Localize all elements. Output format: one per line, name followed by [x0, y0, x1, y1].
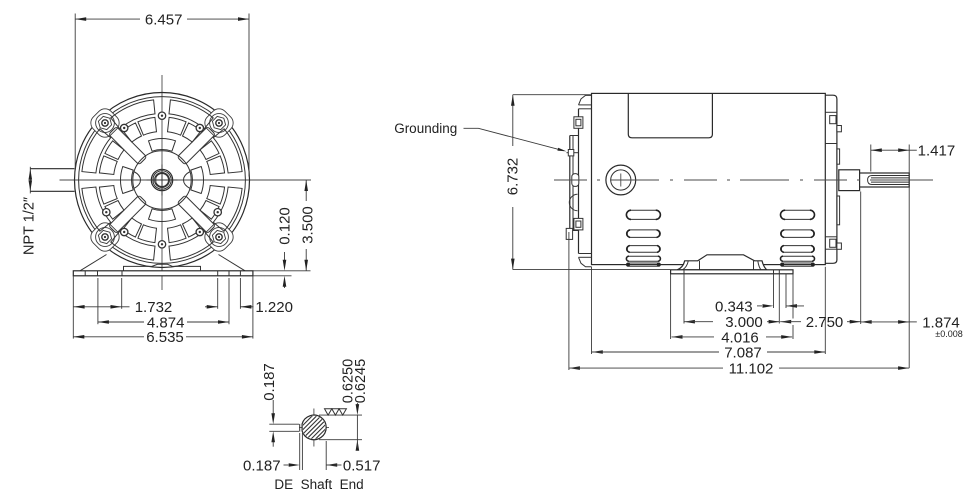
- side ext lines: [568, 232, 570, 370]
- fan cover outer circle: [75, 93, 250, 268]
- detail flat ext lines: [269, 423, 299, 425]
- side centerline: [554, 179, 933, 181]
- side vent slots: [626, 210, 660, 219]
- conduit box: [628, 93, 712, 137]
- rear face lower clip: [574, 218, 583, 230]
- front dim ext lines: [72, 276, 74, 339]
- stub diameter arrows: [29, 169, 33, 180]
- shaft: [860, 173, 910, 187]
- dim 3.500 line: [305, 180, 307, 201]
- base bottom ext line: [253, 275, 292, 277]
- rear face plate: [569, 136, 571, 231]
- rear face top clip: [574, 117, 583, 129]
- dim 6.457 arrows: [75, 17, 86, 21]
- dim 6.535 line: [73, 336, 144, 338]
- dim 1.417 arrows: [871, 148, 882, 152]
- fan cover inner rim circle: [79, 97, 246, 264]
- conduit stub: [30, 168, 74, 170]
- right cap lower tab: [825, 236, 837, 238]
- bearing hub strips: [837, 149, 840, 164]
- svg-text:7.087: 7.087: [724, 344, 762, 361]
- detail centerlines: [313, 409, 315, 447]
- svg-text:6.457: 6.457: [145, 12, 183, 29]
- side foot hat: [677, 255, 767, 270]
- front base plate: [73, 271, 253, 276]
- detail 0.517: [326, 463, 337, 467]
- side cover band: [578, 109, 580, 254]
- dim 7.087: [592, 350, 603, 354]
- dim 6.457 ext lines: [74, 14, 76, 169]
- dim 4.874 arrows: [98, 320, 109, 324]
- svg-text:1.417: 1.417: [918, 143, 956, 160]
- svg-text:6.732: 6.732: [504, 158, 521, 196]
- side base plate: [671, 270, 793, 274]
- dim 6.535 arrows: [73, 335, 84, 339]
- fan cover vent slots: [213, 129, 242, 173]
- svg-text:0.187: 0.187: [261, 363, 278, 401]
- shaft keyway: [868, 176, 910, 185]
- fan cover diagonal slots: [177, 127, 215, 165]
- svg-text:11.102: 11.102: [729, 361, 774, 378]
- fan cover corner bolts: [96, 114, 115, 133]
- rear face lower tab: [566, 228, 572, 239]
- detail 0.187 top dim: [272, 400, 274, 418]
- dim 1.417 line: [871, 149, 909, 151]
- grounding leader: [464, 128, 564, 150]
- dim 1.874: [861, 320, 872, 324]
- dim 0.343: [757, 305, 762, 307]
- fan cover corner pads: [87, 105, 122, 140]
- side base plate ticks: [683, 270, 685, 274]
- detail flat face line: [299, 424, 301, 432]
- detail 0.625 dim: [356, 403, 358, 409]
- front view horizontal centerline: [60, 179, 312, 181]
- dim 1.220 arrows: [207, 305, 218, 309]
- centerline tail after shaft: [913, 179, 933, 181]
- svg-text:±0.008: ±0.008: [935, 329, 962, 339]
- dim 6.732 ext top: [513, 94, 591, 96]
- dim 2.750: [780, 320, 791, 324]
- dim 1.417 ext lines: [870, 145, 872, 172]
- svg-text:2.750: 2.750: [806, 314, 844, 331]
- hub notch left: [134, 172, 141, 189]
- dim 1.220 line: [205, 306, 218, 308]
- detail bottom tangent ext: [319, 439, 362, 441]
- svg-text:0.187: 0.187: [243, 457, 281, 474]
- detail top tangent ext: [319, 414, 362, 416]
- svg-text:DE Shaft End: DE Shaft End: [274, 477, 363, 492]
- svg-text:0.517: 0.517: [343, 457, 381, 474]
- front base center profile: [124, 264, 201, 271]
- shaft boss: [839, 170, 860, 191]
- surface finish symbol: [325, 409, 332, 415]
- dim 1.732 line: [73, 306, 121, 308]
- shaft hole circles: [151, 169, 172, 190]
- front base plate ticks: [84, 271, 86, 276]
- dim 6.457 line: [75, 18, 140, 20]
- grounding tab: [567, 152, 579, 154]
- right end cap: [825, 95, 837, 263]
- svg-text:6.535: 6.535: [146, 329, 184, 346]
- svg-text:NPT 1/2″: NPT 1/2″: [22, 197, 38, 255]
- svg-text:Grounding: Grounding: [394, 121, 457, 136]
- shaft key: [153, 178, 157, 183]
- svg-text:1.220: 1.220: [255, 299, 293, 316]
- hub circle: [133, 151, 191, 209]
- side body outline: [592, 93, 826, 264]
- hub notch right: [184, 172, 191, 189]
- dim 6.732 arrows: [511, 95, 515, 106]
- rear face center feature: [572, 174, 579, 187]
- shaft section circle: [302, 415, 326, 440]
- dim 11.102: [569, 366, 580, 370]
- fan cover screws: [196, 124, 203, 131]
- dim 6.732 line: [512, 95, 514, 146]
- dim 4.016: [672, 335, 683, 339]
- dim 3.000: [684, 320, 695, 324]
- base top ext line: [253, 270, 311, 272]
- dim 4.874 line: [98, 321, 144, 323]
- front base gussets: [80, 255, 107, 271]
- front view vertical centerline: [161, 75, 163, 290]
- side circle boss: [606, 165, 636, 195]
- svg-text:0.120: 0.120: [277, 207, 294, 245]
- detail bottom ext lines: [299, 433, 301, 470]
- svg-text:0.343: 0.343: [715, 298, 753, 315]
- dim 6.732 ext bottom: [513, 269, 670, 271]
- shaft crosshair: [147, 179, 178, 181]
- svg-text:0.6245: 0.6245: [353, 359, 369, 403]
- svg-text:3.500: 3.500: [299, 206, 316, 244]
- side circle center tick: [620, 174, 622, 187]
- dim 0.120 arrows: [284, 252, 286, 265]
- dim 3.500 arrows: [304, 180, 308, 191]
- right cap upper tab: [825, 111, 837, 113]
- dim 1.732 arrows: [74, 305, 85, 309]
- rear face bump: [569, 194, 577, 210]
